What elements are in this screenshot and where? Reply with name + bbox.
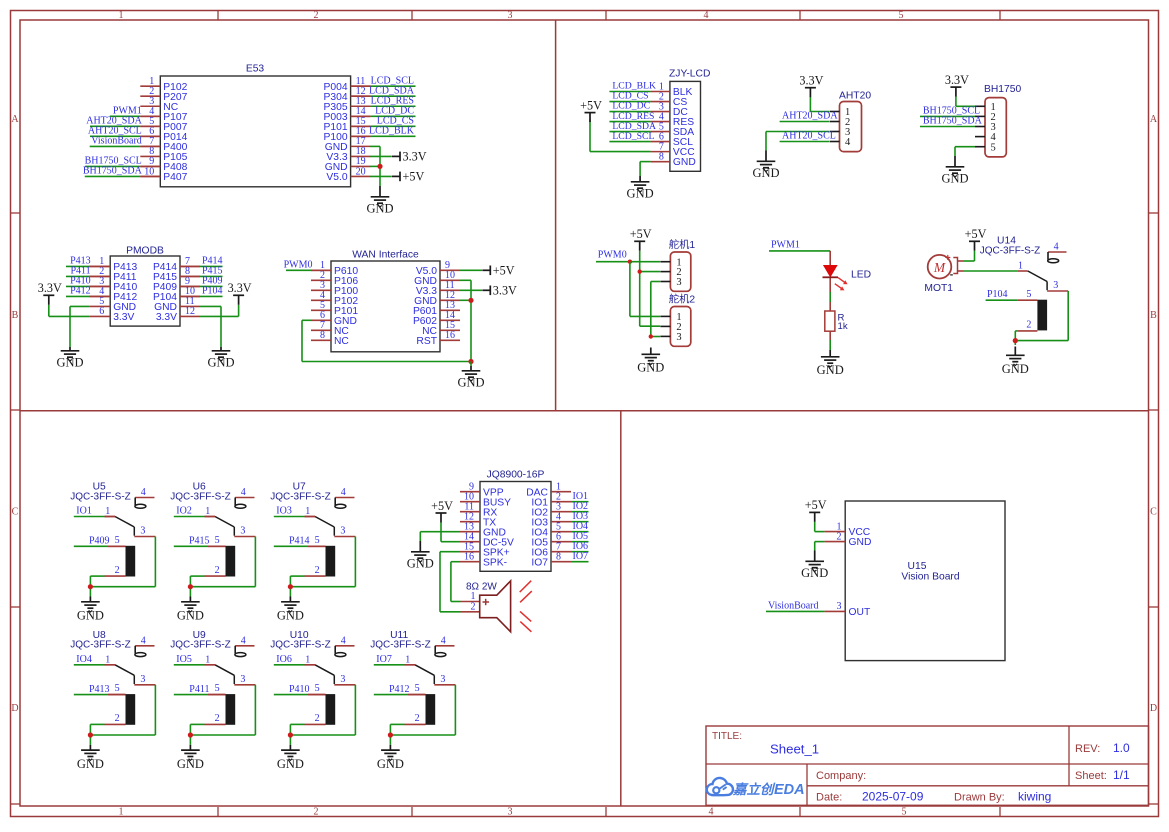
- ground: [277, 597, 304, 623]
- wire PMODB pin6 3.3V: [49, 305, 89, 317]
- svg-text:WAN Interface: WAN Interface: [352, 250, 419, 261]
- wire 3.3V to BH1750 pin1: [956, 97, 975, 107]
- net LCD_SCL: [351, 75, 416, 86]
- ground (E53): [366, 186, 393, 216]
- svg-text:3: 3: [837, 601, 842, 612]
- power flag 3.3V (PMODB left): [38, 281, 62, 305]
- wire LED to R: [829, 278, 831, 311]
- power flag +5V (U15): [805, 498, 827, 522]
- svg-text:2: 2: [115, 713, 120, 724]
- wire to LED: [829, 251, 831, 266]
- svg-text:3: 3: [676, 332, 681, 343]
- ground (LED): [817, 350, 844, 377]
- svg-text:D: D: [11, 703, 18, 714]
- power flag +5V (ZJY-LCD): [580, 98, 602, 122]
- net PWM1: [110, 106, 161, 117]
- svg-text:1.0: 1.0: [1113, 741, 1130, 755]
- ground (servos): [637, 348, 664, 375]
- svg-text:PWM0: PWM0: [598, 250, 627, 261]
- wire JQ8900 GND: [420, 532, 460, 541]
- svg-text:1: 1: [205, 654, 210, 665]
- svg-text:IO6: IO6: [276, 654, 292, 665]
- net IO4: [74, 654, 115, 665]
- svg-text:1: 1: [119, 10, 124, 21]
- svg-text:GND: GND: [77, 757, 104, 771]
- svg-text:JQ8900-16P: JQ8900-16P: [487, 470, 545, 481]
- net IO2: [174, 506, 215, 517]
- net LCD_BLK: [351, 126, 416, 137]
- net P411: [66, 266, 110, 277]
- svg-text:IO7: IO7: [573, 551, 589, 562]
- net PWM0: [284, 260, 331, 271]
- net IO7: [374, 654, 415, 665]
- svg-text:IO3: IO3: [276, 506, 292, 517]
- wire WAN pin10 GND rail: [460, 280, 471, 361]
- svg-text:P104: P104: [987, 289, 1008, 300]
- net LCD_DC: [609, 101, 650, 112]
- svg-text:GND: GND: [56, 356, 83, 370]
- net LCD_CS: [609, 91, 650, 102]
- wire AHT20 pin3 to gnd: [766, 132, 829, 151]
- svg-text:GND: GND: [366, 202, 393, 216]
- svg-text:P104: P104: [202, 286, 223, 297]
- svg-text:+5V: +5V: [580, 98, 602, 112]
- svg-text:BH1750_SDA: BH1750_SDA: [923, 116, 983, 127]
- wire E53 GND rail: [370, 146, 380, 186]
- svg-text:AHT20_SCL: AHT20_SCL: [782, 131, 836, 142]
- svg-text:EDA: EDA: [774, 782, 805, 798]
- net P413: [66, 256, 110, 267]
- svg-text:JQC-3FF-S-Z: JQC-3FF-S-Z: [170, 491, 231, 502]
- wire pin2 to gnd: [290, 724, 304, 744]
- svg-text:3.3V: 3.3V: [228, 281, 252, 295]
- svg-text:12: 12: [185, 306, 195, 317]
- svg-text:+5V: +5V: [403, 169, 425, 183]
- svg-text:E53: E53: [246, 64, 265, 75]
- LED D1: [823, 266, 872, 291]
- svg-text:4: 4: [141, 487, 146, 498]
- svg-text:2: 2: [471, 602, 476, 613]
- ground (WAN): [457, 366, 484, 390]
- svg-text:Sheet_1: Sheet_1: [770, 742, 819, 757]
- svg-text:3.3V: 3.3V: [493, 283, 517, 297]
- ground (ZJY-LCD): [627, 176, 654, 201]
- svg-text:1: 1: [471, 591, 476, 602]
- net IO1: [571, 491, 589, 502]
- svg-text:4: 4: [704, 10, 709, 21]
- title block: [706, 726, 1149, 805]
- svg-text:嘉立创: 嘉立创: [732, 782, 776, 797]
- svg-text:5: 5: [1026, 289, 1031, 300]
- net AHT20_SCL: [780, 131, 836, 142]
- svg-text:4: 4: [441, 635, 446, 646]
- svg-text:5: 5: [899, 10, 904, 21]
- wire PMODB pin5 GND: [70, 306, 89, 347]
- wire +5V to U15 VCC: [815, 522, 825, 532]
- net IO6: [571, 541, 589, 552]
- net P413: [74, 684, 126, 695]
- power flag 3.3V (BH1750): [945, 73, 969, 97]
- wire pin3 to gnd rail: [290, 537, 355, 587]
- svg-text:VisionBoard: VisionBoard: [91, 136, 142, 147]
- svg-text:4: 4: [845, 137, 851, 148]
- wire pin3 to gnd rail: [190, 685, 255, 735]
- junction: [288, 732, 293, 737]
- wire PMODB pin12 3.3V: [200, 305, 239, 317]
- svg-text:IO1: IO1: [76, 506, 92, 517]
- connector servo2: [660, 293, 695, 347]
- wire U14 pin3 to gnd rail: [1015, 291, 1068, 341]
- junction: [88, 732, 93, 737]
- wire pin3 to gnd rail: [190, 537, 255, 587]
- net IO3: [571, 511, 589, 522]
- wire pin3 to gnd rail: [90, 537, 155, 587]
- svg-text:3: 3: [676, 277, 681, 288]
- resistor R 1k: [825, 311, 848, 332]
- net P412: [374, 684, 426, 695]
- svg-text:JQC-3FF-S-Z: JQC-3FF-S-Z: [70, 491, 131, 502]
- svg-text:LCD_BLK: LCD_BLK: [369, 126, 415, 137]
- wire +5V to motor +: [958, 251, 975, 261]
- net IO6: [274, 654, 315, 665]
- svg-text:P409: P409: [89, 536, 110, 547]
- svg-text:5: 5: [115, 683, 120, 694]
- svg-text:IO4: IO4: [76, 654, 92, 665]
- svg-text:IO5: IO5: [176, 654, 192, 665]
- junction: [468, 359, 473, 364]
- net BH1750_SCL: [85, 156, 161, 167]
- net PWM1 (LED): [769, 239, 830, 251]
- junction: [649, 334, 653, 338]
- net AHT20_SCL: [88, 126, 160, 137]
- svg-text:3: 3: [140, 526, 145, 537]
- svg-text:GND: GND: [77, 609, 104, 623]
- svg-text:8: 8: [320, 330, 325, 341]
- svg-text:P407: P407: [163, 172, 187, 183]
- net IO5: [174, 654, 215, 665]
- IC U3 WAN Interface: [311, 250, 460, 352]
- wire GND (ZJY-LCD): [640, 162, 651, 176]
- svg-text:1: 1: [305, 506, 310, 517]
- wire SPK- to speaker pin1: [451, 562, 461, 602]
- svg-text:+5V: +5V: [965, 227, 987, 241]
- junction: [377, 164, 382, 169]
- power flag 3.3V (PMODB right): [228, 281, 252, 305]
- svg-text:16: 16: [445, 330, 455, 341]
- svg-text:3: 3: [440, 674, 445, 685]
- svg-text:GND: GND: [752, 166, 779, 180]
- wire R to gnd: [829, 331, 831, 350]
- wire pin2 to gnd: [90, 576, 104, 596]
- svg-text:8: 8: [556, 552, 561, 563]
- svg-text:VisionBoard: VisionBoard: [768, 600, 819, 611]
- net LCD_SCL: [609, 131, 654, 142]
- svg-text:JQC-3FF-S-Z: JQC-3FF-S-Z: [370, 640, 431, 651]
- ground: [277, 745, 304, 771]
- svg-text:-: -: [950, 269, 954, 281]
- svg-text:8: 8: [659, 151, 664, 162]
- svg-text:3.3V: 3.3V: [403, 149, 427, 163]
- svg-text:Company:: Company:: [816, 770, 866, 782]
- svg-text:Vision Board: Vision Board: [901, 572, 959, 583]
- ground: [177, 745, 204, 771]
- wire +5V to servo pins 2: [640, 251, 661, 326]
- svg-text:20: 20: [356, 166, 366, 177]
- net LCD_SDA: [351, 85, 416, 96]
- svg-text:GND: GND: [457, 376, 484, 390]
- wire servo pins 3 to gnd: [651, 282, 660, 337]
- net LCD_BLK: [609, 81, 656, 92]
- junction: [88, 584, 93, 589]
- wire pin20 to +5V: [370, 175, 392, 177]
- net BH1750_SCL: [920, 105, 980, 116]
- svg-text:B: B: [12, 310, 19, 321]
- relay U6 JQC-3FF-S-Z: [170, 482, 255, 577]
- svg-text:16: 16: [464, 552, 474, 563]
- net P412: [66, 286, 110, 297]
- svg-text:3.3V: 3.3V: [156, 312, 177, 323]
- wire pin2 to gnd: [290, 576, 304, 596]
- IC U4 JQ8900-16P: [460, 470, 571, 572]
- svg-text:5: 5: [991, 142, 996, 153]
- svg-text:5: 5: [902, 807, 907, 818]
- svg-text:4: 4: [241, 635, 246, 646]
- net LCD_RES: [351, 95, 416, 106]
- wire pin3 to gnd rail: [390, 685, 455, 735]
- svg-text:LED: LED: [851, 270, 871, 281]
- svg-text:D: D: [1150, 703, 1157, 714]
- relay U14 JQC-3FF-S-Z: [980, 236, 1068, 331]
- net VisionBoard: [766, 600, 824, 611]
- svg-text:3: 3: [508, 10, 513, 21]
- svg-text:+5V: +5V: [431, 499, 453, 513]
- svg-text:JQC-3FF-S-Z: JQC-3FF-S-Z: [70, 640, 131, 651]
- svg-text:5: 5: [115, 535, 120, 546]
- svg-text:1/1: 1/1: [1113, 768, 1130, 782]
- svg-text:4: 4: [709, 807, 714, 818]
- wire SPK+ to speaker pin2: [440, 552, 461, 612]
- svg-text:+5V: +5V: [805, 498, 827, 512]
- wire U14 pin2 down: [1015, 331, 1017, 345]
- svg-text:LCD_SCL: LCD_SCL: [612, 131, 654, 142]
- net P410: [274, 684, 326, 695]
- svg-text:1: 1: [119, 807, 124, 818]
- power flag +5V (WAN): [482, 263, 514, 277]
- wire pin3 to gnd rail: [290, 685, 355, 735]
- net P409: [74, 536, 126, 547]
- wire to gnd: [470, 362, 472, 367]
- svg-text:2: 2: [1026, 320, 1031, 331]
- svg-text:AHT20_SDA: AHT20_SDA: [782, 111, 838, 122]
- junction: [468, 298, 473, 303]
- IC U2 PMODB: [89, 246, 200, 327]
- relay U5 JQC-3FF-S-Z: [70, 482, 155, 577]
- power flag +5V (motor): [965, 227, 987, 251]
- net P409: [180, 276, 223, 287]
- svg-text:1: 1: [105, 654, 110, 665]
- junction: [1013, 338, 1018, 343]
- svg-text:3.3V: 3.3V: [945, 73, 969, 87]
- power flag +5V (JQ8900): [431, 499, 453, 523]
- wire pin2 to gnd: [190, 576, 204, 596]
- wire pin2 to gnd: [190, 724, 204, 744]
- wire pin19: [370, 165, 380, 167]
- svg-text:3: 3: [340, 674, 345, 685]
- svg-text:OUT: OUT: [849, 607, 871, 618]
- net P104 (U14 pin5): [986, 289, 1018, 300]
- svg-text:3: 3: [340, 526, 345, 537]
- svg-text:2: 2: [837, 531, 842, 542]
- junction: [388, 732, 393, 737]
- power flag 3.3V (AHT20): [799, 74, 823, 98]
- net LCD_CS: [351, 116, 416, 127]
- svg-text:2025-07-09: 2025-07-09: [862, 790, 924, 804]
- svg-text:GND: GND: [673, 157, 696, 168]
- svg-text:1: 1: [1018, 261, 1023, 272]
- net LCD_RES: [609, 111, 654, 122]
- svg-text:3.3V: 3.3V: [113, 312, 134, 323]
- svg-text:+5V: +5V: [493, 263, 515, 277]
- svg-text:4: 4: [241, 487, 246, 498]
- svg-text:5: 5: [215, 683, 220, 694]
- svg-text:1: 1: [205, 506, 210, 517]
- svg-text:3: 3: [240, 674, 245, 685]
- IC ZJY-LCD connector: [651, 69, 711, 172]
- svg-text:IO2: IO2: [176, 506, 192, 517]
- connector servo1: [660, 238, 695, 291]
- motor MOT1: [924, 253, 957, 294]
- svg-text:REV:: REV:: [1075, 743, 1100, 755]
- power flag +5V (E53 pin20): [392, 169, 424, 183]
- ground: [177, 597, 204, 623]
- svg-text:SPK-: SPK-: [483, 557, 507, 568]
- svg-text:P412: P412: [389, 684, 410, 695]
- svg-text:BH1750_SDA: BH1750_SDA: [83, 166, 143, 177]
- power flag 3.3V (WAN): [482, 283, 517, 297]
- svg-text:1: 1: [105, 506, 110, 517]
- junction: [638, 269, 642, 273]
- svg-text:IO7: IO7: [376, 654, 392, 665]
- svg-text:U15: U15: [908, 561, 927, 572]
- net LCD_SDA: [609, 121, 656, 132]
- svg-text:P414: P414: [289, 536, 310, 547]
- svg-text:JQC-3FF-S-Z: JQC-3FF-S-Z: [270, 640, 331, 651]
- svg-text:5: 5: [215, 535, 220, 546]
- svg-text:GND: GND: [207, 356, 234, 370]
- svg-text:kiwing: kiwing: [1018, 790, 1051, 804]
- svg-text:5: 5: [315, 535, 320, 546]
- wire PMODB pin11 GND: [200, 306, 221, 347]
- svg-text:5: 5: [315, 683, 320, 694]
- wire +5V to DC-5V: [441, 523, 460, 542]
- net AHT20_SDA: [780, 111, 839, 122]
- svg-text:2: 2: [215, 713, 220, 724]
- svg-text:IO7: IO7: [531, 557, 548, 568]
- svg-text:JQC-3FF-S-Z: JQC-3FF-S-Z: [270, 491, 331, 502]
- svg-text:1: 1: [305, 654, 310, 665]
- svg-text:BH1750: BH1750: [984, 84, 1021, 95]
- ground (U15): [801, 551, 828, 581]
- net P414: [274, 536, 326, 547]
- svg-text:1k: 1k: [838, 321, 848, 332]
- svg-text:GND: GND: [1002, 362, 1029, 376]
- svg-text:B: B: [1150, 310, 1157, 321]
- junction: [188, 732, 193, 737]
- speaker LS1 8ohm 2W: [461, 581, 532, 632]
- ground (PMODB right): [207, 347, 234, 370]
- ground: [377, 745, 404, 771]
- svg-text:A: A: [11, 114, 19, 125]
- svg-text:3: 3: [1053, 280, 1058, 291]
- svg-text:Sheet:: Sheet:: [1075, 770, 1107, 782]
- svg-text:2: 2: [415, 713, 420, 724]
- net IO7: [571, 551, 589, 562]
- IC U15 Vision Board: [824, 501, 1005, 661]
- wire PWM0 to servo2 pin1: [630, 262, 660, 317]
- ground: [77, 597, 104, 623]
- svg-text:P413: P413: [89, 684, 110, 695]
- net IO2: [571, 501, 589, 512]
- svg-text:6: 6: [99, 306, 104, 317]
- JLCEDA logo: [707, 778, 805, 798]
- svg-text:GND: GND: [817, 363, 844, 377]
- svg-text:ZJY-LCD: ZJY-LCD: [669, 69, 710, 80]
- IC U1 E53: [140, 64, 370, 187]
- svg-text:TITLE:: TITLE:: [712, 731, 742, 742]
- svg-text:GND: GND: [277, 757, 304, 771]
- svg-text:3.3V: 3.3V: [799, 74, 823, 88]
- wire WAN pin9 +5V: [460, 269, 482, 271]
- net BH1750_SDA: [920, 116, 983, 127]
- svg-text:2: 2: [314, 10, 319, 21]
- svg-text:Date:: Date:: [816, 792, 842, 804]
- svg-text:GND: GND: [849, 537, 872, 548]
- ground (BH1750): [941, 156, 968, 186]
- ground (U14): [1002, 347, 1029, 377]
- svg-text:2: 2: [215, 565, 220, 576]
- wire WAN pin11 3.3V: [460, 289, 482, 291]
- power flag 3.3V (E53 pin18): [392, 149, 427, 163]
- svg-text:3: 3: [240, 526, 245, 537]
- ground (PMODB left): [56, 347, 83, 370]
- connector BH1750: [975, 84, 1021, 157]
- svg-text:C: C: [12, 507, 19, 518]
- svg-text:GND: GND: [627, 187, 654, 201]
- net P410: [66, 276, 110, 287]
- svg-text:AHT20: AHT20: [839, 90, 871, 101]
- junction: [188, 584, 193, 589]
- svg-text:4: 4: [341, 487, 346, 498]
- svg-text:2: 2: [115, 565, 120, 576]
- svg-text:GND: GND: [801, 566, 828, 580]
- net P414: [180, 256, 223, 267]
- svg-text:3: 3: [140, 674, 145, 685]
- net IO4: [571, 521, 589, 532]
- svg-text:+: +: [945, 253, 951, 264]
- svg-text:Drawn By:: Drawn By:: [954, 792, 1005, 804]
- wire WAN pin12 GND: [460, 299, 471, 301]
- net IO1: [74, 506, 115, 517]
- svg-text:舵机1: 舵机1: [669, 238, 696, 251]
- net P411: [174, 684, 226, 695]
- svg-text:4: 4: [1054, 242, 1059, 253]
- relay U9 JQC-3FF-S-Z: [170, 630, 255, 725]
- net P415: [180, 266, 223, 277]
- net P415: [174, 536, 226, 547]
- wire pin18 to 3.3V: [370, 155, 392, 157]
- net PWM0 (servo): [596, 250, 660, 262]
- svg-text:P411: P411: [189, 684, 209, 695]
